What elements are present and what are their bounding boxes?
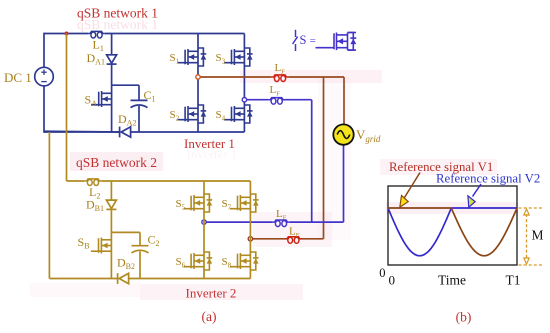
transistor SB: [91, 238, 112, 254]
wire inverter1 left leg: [197, 34, 199, 133]
wire inverter1 right leg: [243, 34, 245, 133]
wire phase A bottom horizontal: [250, 238, 323, 240]
capacitor C2: [132, 246, 149, 253]
wire inverter2 left leg: [203, 181, 205, 279]
node junction dot (DC+ tap): [65, 32, 69, 36]
arrow to V1 curve: [400, 173, 420, 208]
wire bottom rail qSB1/Inverter1: [44, 130, 244, 133]
legend switch symbol: [293, 30, 298, 51]
svg-text:Inverter 1: Inverter 1: [187, 147, 238, 162]
svg-text:(a): (a): [202, 309, 217, 324]
wire DB1 branch vertical: [110, 181, 112, 232]
curve reference signal V1 (brown): [388, 208, 517, 256]
transistor S5: [184, 194, 213, 212]
svg-text:M: M: [532, 228, 544, 243]
wire C2 branch vertical: [139, 232, 141, 278]
transistor S1: [178, 48, 207, 66]
voltage source DC 1: [35, 67, 54, 86]
ac source Vgrid: [333, 124, 353, 144]
transistor S4: [224, 105, 253, 123]
svg-text:DC 1: DC 1: [4, 70, 32, 85]
wire left vertical qSB1: [43, 33, 45, 133]
wire phase B bottom horizontal: [204, 145, 344, 222]
capacitor C1: [131, 100, 148, 107]
diode DB1: [106, 200, 116, 209]
wire phase B from inverter1 node: [244, 100, 311, 222]
node B2 (inverter2 right midpoint): [248, 237, 252, 241]
inductor L2: [85, 179, 102, 186]
wire SB-to-C2 horizontal: [111, 231, 140, 233]
svg-text:0: 0: [389, 273, 396, 288]
transistor S7: [230, 194, 259, 212]
transistor S6: [184, 252, 213, 270]
inductor L1: [88, 31, 105, 38]
wire inverter2 right leg: [249, 181, 251, 279]
svg-text:qSB network 1: qSB network 1: [77, 6, 158, 21]
wire bottom rail qSB2/Inverter2: [49, 278, 250, 280]
inductor LF (phase A top): [272, 75, 289, 82]
wire C1 branch vertical: [138, 85, 140, 132]
wire top rail qSB1/Inverter1: [44, 33, 244, 35]
svg-text:qSB network 2: qSB network 2: [76, 155, 157, 170]
graph box: [388, 186, 517, 265]
title qSB network 1: [77, 6, 158, 33]
transistor S2: [178, 105, 207, 123]
wire DC- tap vertical: [48, 132, 50, 279]
svg-text:Time: Time: [438, 273, 466, 288]
svg-text:0: 0: [379, 266, 385, 280]
transistor S3: [224, 48, 253, 66]
curve reference signal V2 (blue): [388, 208, 517, 256]
wire SB branch vertical: [110, 232, 112, 278]
wire phase A vertical to inverter2: [323, 77, 325, 239]
svg-text:Reference signal V2: Reference signal V2: [436, 172, 540, 186]
dashed M indicator lines: [519, 208, 543, 265]
diode DA1: [107, 55, 117, 64]
node A (inverter1 left midpoint): [196, 75, 200, 79]
inductor LF (phase B top): [268, 98, 285, 105]
node A2 (inverter2 left midpoint): [202, 220, 206, 224]
wire DC+ tap vertical: [66, 34, 68, 182]
svg-text:S =: S =: [300, 33, 316, 47]
wire phase A from inverter1 node: [198, 77, 344, 124]
inductor LF (phase B bottom): [273, 220, 290, 227]
inductor LF (phase A bottom): [285, 237, 302, 244]
wire SA branch vertical: [111, 85, 113, 132]
title Inverter 1: [184, 136, 237, 162]
diode DA2: [120, 127, 131, 138]
wire DA1 branch vertical: [111, 34, 113, 86]
wire SA-to-C1 horizontal: [112, 84, 139, 86]
svg-text:T1: T1: [506, 273, 521, 288]
svg-text:(b): (b): [456, 310, 472, 325]
transistor SA: [91, 91, 112, 107]
transistor S8: [230, 252, 259, 270]
wire top rail qSB2/Inverter2: [67, 180, 251, 182]
svg-text:Inverter 2: Inverter 2: [186, 286, 237, 301]
diode DB2: [118, 273, 129, 284]
arrow to V2 curve: [468, 184, 481, 207]
node B (inverter1 right midpoint): [242, 98, 246, 102]
legend transistor symbol: [316, 33, 357, 51]
